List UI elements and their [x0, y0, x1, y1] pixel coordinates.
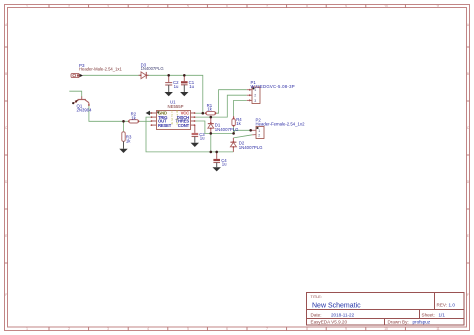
svg-text:2: 2	[258, 133, 260, 137]
svg-text:1u: 1u	[200, 136, 205, 141]
svg-text:11: 11	[436, 5, 440, 9]
node junction D1 top on DISCH wire	[210, 116, 213, 119]
wire D3 to top-right corner down to VCC	[147, 75, 203, 113]
svg-text:TITLE:: TITLE:	[311, 295, 322, 299]
svg-text:4: 4	[147, 5, 149, 9]
node junction at C2 on top rail	[167, 74, 170, 77]
D1 pin end dots	[210, 122, 212, 129]
wire THRES to node row	[195, 121, 234, 133]
svg-text:NE555P: NE555P	[168, 104, 184, 109]
svg-text:Sheet:: Sheet:	[422, 312, 435, 317]
node junction R2/R3	[122, 120, 125, 123]
R4 pin end dots	[233, 118, 235, 127]
capacitor C2	[165, 75, 179, 92]
svg-text:1: 1	[26, 5, 28, 9]
diode D1	[208, 117, 239, 133]
Q1 collector pin end dot	[88, 104, 90, 106]
wire DISCH to P1 pin2	[195, 95, 247, 117]
svg-text:10: 10	[384, 5, 388, 9]
svg-text:5: 5	[176, 122, 178, 126]
transistor Q1	[72, 96, 92, 112]
wire VCC pin to R1	[195, 112, 206, 114]
svg-text:1u: 1u	[222, 162, 227, 167]
svg-text:F: F	[5, 293, 7, 297]
svg-text:B: B	[467, 72, 469, 76]
svg-text:1u: 1u	[174, 84, 179, 89]
svg-text:EasyEDA V5.9.20: EasyEDA V5.9.20	[311, 319, 348, 324]
frame ticks top/bottom	[49, 5, 405, 331]
ground (U1 GND, pointing left)	[146, 111, 152, 116]
svg-text:4: 4	[171, 122, 173, 126]
svg-text:profspuz: profspuz	[413, 319, 431, 324]
svg-text:F: F	[467, 293, 469, 297]
svg-text:7: 7	[266, 327, 268, 331]
wire P1 pin3 to R4 top	[234, 100, 247, 117]
svg-text:10: 10	[384, 327, 388, 331]
resistor R2	[129, 112, 139, 123]
node junction VCC rail	[202, 112, 205, 115]
svg-text:5: 5	[187, 327, 189, 331]
svg-text:WJ2EDGVC-5.08-3P: WJ2EDGVC-5.08-3P	[251, 84, 295, 89]
svg-text:2: 2	[68, 5, 70, 9]
node junction at C1 on top rail	[183, 74, 186, 77]
wire R1 to P1 pin1	[216, 90, 247, 114]
capacitor C4 (polarized)	[213, 152, 227, 167]
svg-text:3: 3	[107, 327, 109, 331]
ground (R3)	[119, 149, 127, 153]
svg-text:3: 3	[107, 5, 109, 9]
frame ticks left/right	[5, 47, 470, 263]
ground (C2)	[165, 92, 173, 96]
title block	[307, 293, 465, 326]
op-amp U1 555 timer	[152, 100, 195, 130]
svg-text:11: 11	[436, 327, 440, 331]
wire Q1 base stub	[69, 91, 81, 96]
D3 pin end dots	[140, 75, 147, 76]
capacitor C1 (polarized)	[181, 75, 195, 92]
svg-text:6: 6	[226, 5, 228, 9]
svg-text:4: 4	[147, 327, 149, 331]
svg-text:1: 1	[258, 129, 260, 133]
wire R4 bottom to node	[233, 126, 235, 133]
wire node to P2 pin1	[234, 130, 251, 133]
svg-text:Header-Female-2.54_1x2: Header-Female-2.54_1x2	[256, 121, 306, 126]
ground (C1)	[180, 92, 188, 96]
svg-text:8: 8	[306, 5, 308, 9]
svg-text:Header-Male-2.54_1x1: Header-Male-2.54_1x1	[79, 67, 123, 72]
wire D2 top to P2 pin2	[233, 135, 252, 138]
node junction D1 bottom / THRES net	[210, 132, 213, 135]
resistor R1	[206, 103, 216, 115]
node junction bottom rail left	[210, 151, 213, 154]
svg-text:1N4007PLG: 1N4007PLG	[141, 66, 164, 71]
svg-text:7: 7	[266, 5, 268, 9]
title block text	[311, 295, 456, 325]
svg-text:2: 2	[68, 327, 70, 331]
svg-text:REV:: REV:	[437, 302, 448, 307]
svg-text:5: 5	[187, 5, 189, 9]
wire TRIG to bottom rail	[146, 117, 233, 152]
svg-text:9: 9	[345, 5, 347, 9]
U1 pin end dots	[151, 112, 196, 126]
svg-text:1.0: 1.0	[449, 302, 456, 307]
svg-text:Date:: Date:	[311, 312, 322, 317]
node junction at C4 on bottom rail	[215, 151, 218, 154]
ground (C4)	[213, 167, 221, 171]
D2 pin end dots	[233, 141, 235, 148]
capacitor C3 (polarized)	[192, 125, 206, 143]
svg-text:E: E	[467, 234, 469, 238]
svg-text:New Schematic: New Schematic	[312, 303, 361, 310]
svg-text:1: 1	[26, 327, 28, 331]
svg-text:9: 9	[345, 327, 347, 331]
wire Q1 collector to R2/R3 junction	[89, 105, 129, 121]
svg-text:8: 8	[306, 327, 308, 331]
svg-text:6: 6	[226, 327, 228, 331]
resistor R4	[232, 116, 242, 126]
wire R3 drop	[123, 121, 125, 132]
svg-text:CONT: CONT	[178, 123, 190, 128]
connector P1	[247, 80, 295, 104]
R2 pin end dots	[128, 120, 140, 122]
node junction at P2 pin 1	[249, 129, 252, 132]
ground (C3)	[191, 143, 199, 147]
svg-text:RESET: RESET	[158, 123, 172, 128]
node junction R4 bottom	[232, 132, 235, 135]
svg-text:3: 3	[254, 99, 256, 103]
svg-text:1N4007PLG: 1N4007PLG	[239, 145, 263, 150]
wire R2 to OUT	[139, 120, 152, 122]
svg-text:Drawn By:: Drawn By:	[388, 319, 409, 324]
wire P3 to D3	[83, 74, 141, 76]
svg-text:1u: 1u	[189, 84, 194, 89]
diode D2	[230, 138, 263, 152]
svg-text:2: 2	[254, 94, 256, 98]
wire node to bottom rail	[210, 133, 212, 152]
svg-text:1/1: 1/1	[439, 312, 446, 317]
svg-text:2N3904: 2N3904	[77, 107, 93, 112]
diode D3	[139, 62, 164, 78]
svg-text:B: B	[5, 72, 7, 76]
svg-text:2018-11-22: 2018-11-22	[331, 312, 355, 317]
R1 pin end dots	[205, 112, 217, 114]
resistor R3	[122, 132, 132, 149]
svg-text:1N4007PLG: 1N4007PLG	[215, 127, 239, 132]
svg-text:E: E	[5, 234, 7, 238]
connector P3	[71, 63, 123, 77]
connector P2	[252, 118, 305, 139]
